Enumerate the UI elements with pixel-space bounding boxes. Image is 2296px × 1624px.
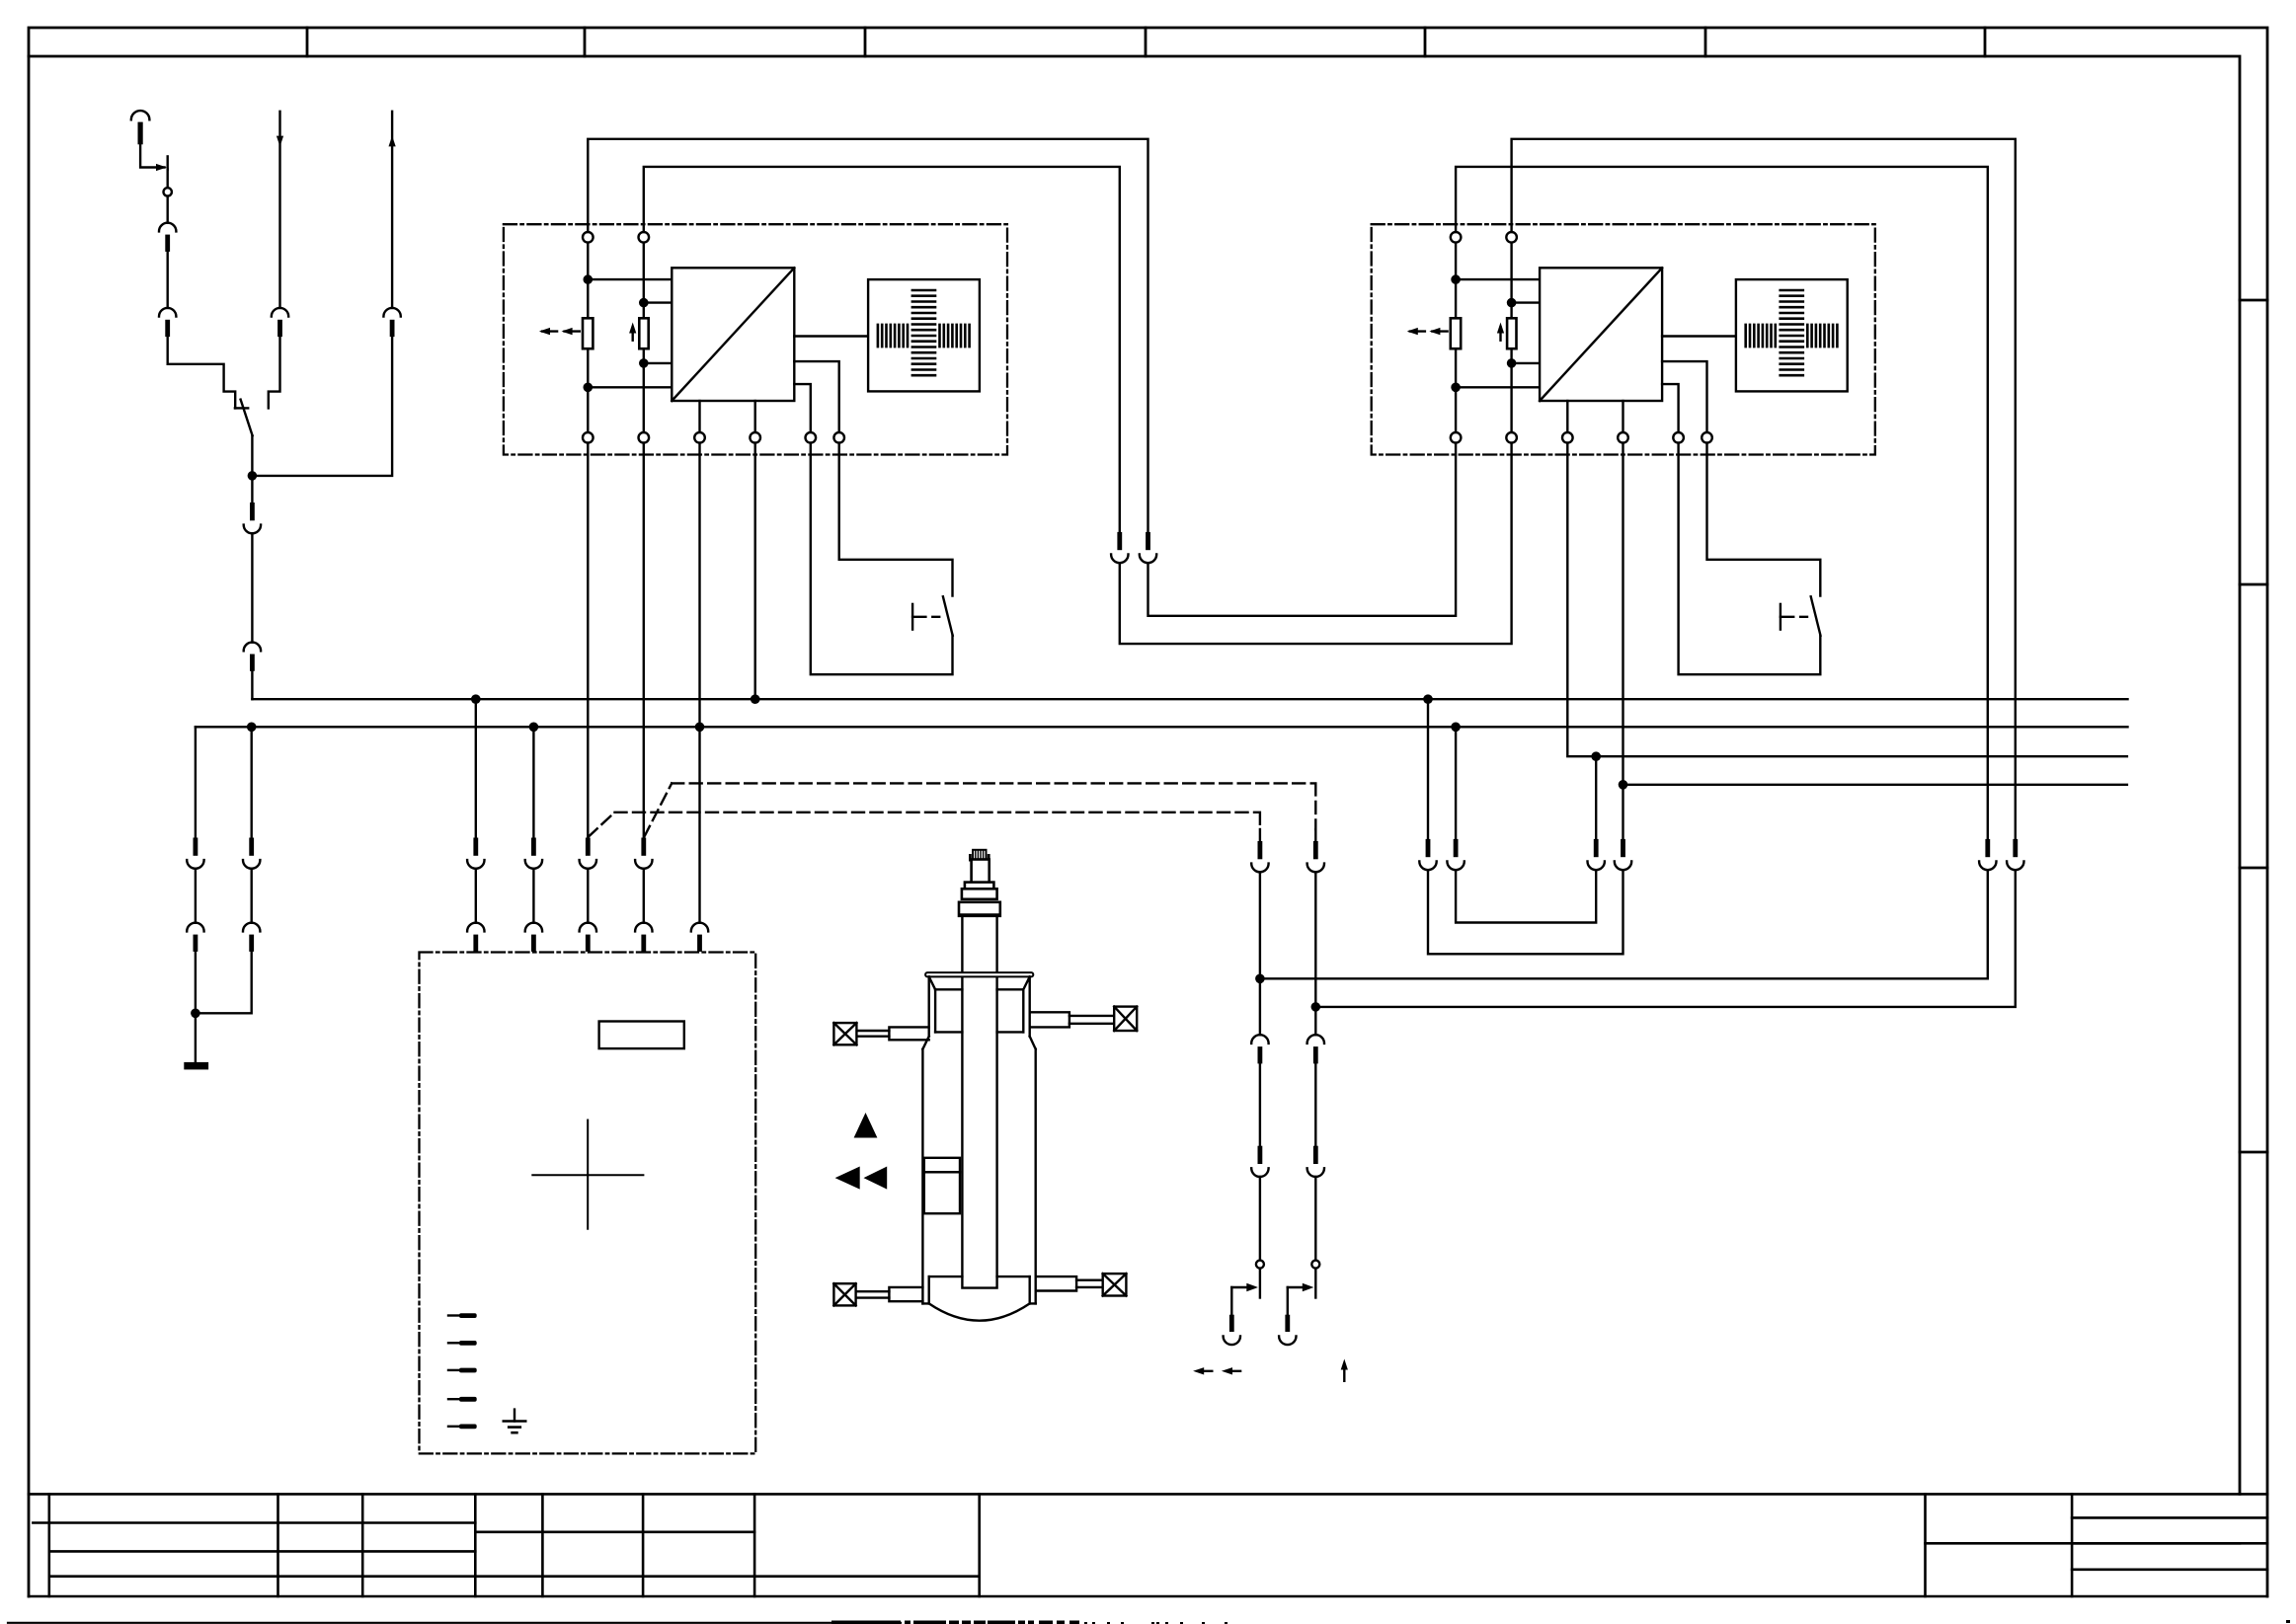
controller input pin 5: [448, 1426, 459, 1428]
connector pair at controller edge: [635, 923, 652, 952]
wire to ground: [195, 952, 197, 1062]
wire B2 top run to far right: [1512, 139, 2016, 839]
wire U loop inner to bus L-: [1456, 870, 1596, 922]
earth junction node: [191, 1009, 200, 1019]
wire W1 to switch fixed contact: [168, 337, 236, 408]
junction node: [1619, 780, 1628, 790]
connector pair: [580, 838, 596, 869]
wire W1 upper run: [140, 144, 164, 167]
wire to bus 1 left end: [251, 671, 253, 699]
nozzle top right pipe: [1069, 1016, 1114, 1024]
plug wire V2: [1287, 1287, 1289, 1315]
junction node to far right: [1311, 1002, 1321, 1012]
TITLE BLOCK: [29, 1494, 2267, 1596]
tap wire A upper: [588, 278, 672, 280]
connector pair on W1: [159, 223, 176, 252]
wire A1 top run to centre: [588, 139, 1148, 532]
terminal circle 1 bottom: [583, 432, 594, 443]
connector pair at controller edge: [525, 923, 542, 952]
wire joining earth branch: [196, 952, 252, 1013]
probe head cap hatched: [973, 850, 986, 860]
junction node A upper: [584, 274, 594, 284]
vessel neck outer walls: [929, 976, 1030, 1036]
arrow link into V2: [1288, 1286, 1303, 1288]
connector pair at controller edge: [580, 923, 596, 952]
terminal circle 3 bottom: [694, 432, 705, 443]
wire node to connector: [1595, 756, 1597, 839]
controller input pin 4: [448, 1398, 459, 1400]
connector pair: [1588, 839, 1605, 870]
wire box1 terminal 3 to bus L- and controller: [698, 443, 700, 923]
wire B1 top run to centre: [644, 167, 1120, 532]
vessel body walls: [922, 1049, 1035, 1304]
wire: [587, 869, 589, 923]
wire: [475, 869, 477, 923]
wire node to connector: [1622, 785, 1623, 839]
terminal circle B top: [639, 232, 650, 243]
wire W2 with down arrow: [278, 112, 280, 308]
wire bus L- node to controller: [532, 727, 534, 837]
resistor RA: [583, 318, 593, 348]
terminal circle 5 bottom: [806, 432, 817, 443]
connector pair far right B: [2007, 839, 2023, 870]
limit switch lower wire: [811, 443, 953, 675]
vessel neck inner top edge: [935, 988, 1023, 990]
controller enclosure dash-dot border: [420, 953, 756, 1454]
nozzle top left stub: [889, 1027, 928, 1040]
controller display window: [599, 1022, 684, 1049]
terminal circle 6 bottom: [833, 432, 844, 443]
dashed link lower: [589, 812, 1260, 837]
terminal circle 2 bottom: [639, 432, 650, 443]
direction arrows outgoing: [1198, 1370, 1212, 1372]
connector pin and socket V2: [1285, 1315, 1290, 1332]
wire: [1259, 872, 1261, 1035]
controller internal earth: [514, 1410, 515, 1422]
wire centre to box2 terminal A2: [1148, 443, 1457, 616]
terminal circle A top: [583, 232, 594, 243]
connector pair: [1251, 1035, 1268, 1063]
valve X-box bottom left: [833, 1283, 855, 1305]
valve X-box top left: [833, 1023, 856, 1044]
connector pin and socket V1: [1229, 1315, 1234, 1332]
display square: [868, 279, 980, 391]
vessel neck bevels: [929, 976, 1030, 989]
converter diagonal: [672, 268, 794, 401]
controller cross mark: [532, 1121, 643, 1229]
probe flange 1: [965, 883, 994, 889]
valve X-box top right: [1114, 1007, 1137, 1031]
wire B inside box: [643, 243, 645, 432]
vessel neck inner walls: [935, 989, 1023, 1032]
plug wire V1: [1230, 1287, 1232, 1315]
connector pair above bus: [244, 643, 261, 671]
connector pair: [1307, 1146, 1324, 1177]
vessel dished bottom: [929, 1303, 1030, 1320]
wire outer loop upper leg: [1427, 699, 1429, 839]
limit switch actuator tick: [911, 604, 913, 630]
connector pair centre left: [1111, 532, 1128, 563]
wire W1: [166, 252, 168, 308]
junction node: [1591, 751, 1601, 761]
junction node to far right: [1255, 974, 1265, 984]
connector pair: [1251, 841, 1268, 872]
tap to terminal 6: [794, 361, 838, 432]
wire: [1314, 1064, 1316, 1146]
wire W3 down to common junction: [252, 337, 392, 476]
arrow link into V1: [1231, 1286, 1246, 1288]
stub above connector: [1259, 829, 1261, 841]
wire A2 top run to far right: [1456, 167, 1988, 839]
connector pair on W3: [383, 308, 400, 337]
connector pair: [187, 923, 203, 952]
wire: [1314, 1177, 1316, 1261]
junction node A lower: [584, 383, 594, 393]
connector pair far right A: [1979, 839, 1996, 870]
wire: [1259, 1177, 1261, 1261]
connector pair: [1615, 839, 1631, 870]
connector pair below junction: [244, 503, 261, 533]
connector pair on W1: [159, 308, 176, 337]
wire bus L+ node to controller: [475, 699, 477, 837]
wire far right to sensor column V2: [1315, 870, 2016, 1007]
connector pair: [243, 838, 260, 869]
bus junction node: [1451, 723, 1461, 733]
wire W1 below circle: [166, 196, 168, 223]
filled triangles left (level marks): [835, 1167, 860, 1190]
nozzle bottom right pipe: [1076, 1280, 1123, 1287]
arrowhead up on W3: [389, 136, 396, 147]
junction common node: [248, 471, 258, 481]
probe flange 2: [962, 889, 997, 899]
tap to terminal 5: [794, 384, 811, 432]
wire box1 terminal 1 to controller: [587, 443, 589, 838]
small circle: [1256, 1261, 1264, 1269]
wire W2 to open throw of switch: [269, 337, 280, 408]
wire W3 with up arrow: [391, 112, 393, 308]
limit switch blade: [943, 596, 953, 635]
small circle on wire W1: [164, 188, 172, 195]
filled triangle up (max level): [854, 1113, 878, 1138]
bus junction node: [751, 694, 760, 704]
wire: [532, 869, 534, 923]
bottom footer line: [8, 1622, 901, 1624]
converter square U: [672, 268, 794, 401]
bus junction node: [695, 723, 705, 733]
level pocket rect lower: [924, 1172, 960, 1213]
wire to sheet edge: [1623, 784, 2127, 786]
nozzle top right stub: [1030, 1012, 1069, 1027]
dashed link upper: [644, 783, 1315, 836]
wire U loop outer to bus L+: [1428, 870, 1623, 954]
connector pair: [525, 838, 542, 869]
connector pair on outer loop: [1419, 839, 1436, 870]
connector pair on W2: [272, 308, 288, 337]
wire: [250, 869, 252, 923]
level pocket rect upper: [924, 1158, 960, 1173]
stub below circle: [1259, 1269, 1261, 1298]
display cross pattern: [878, 290, 970, 375]
tap wire B lower: [644, 362, 673, 364]
connector pair centre right: [1140, 532, 1156, 563]
wire box1 terminal 4 to bus L+: [754, 443, 756, 700]
earth bar: [184, 1062, 208, 1070]
wire from bus L- node down: [250, 727, 252, 837]
bus junction node: [247, 723, 257, 733]
nozzle top left pipe: [856, 1031, 889, 1037]
wire inner loop upper leg: [1455, 727, 1457, 839]
junction node B upper: [639, 298, 649, 308]
connector pair: [1251, 1146, 1268, 1177]
wire centre to box2 terminal B2: [1120, 443, 1512, 644]
connector pair at controller edge: [467, 923, 484, 952]
probe head ears: [970, 855, 989, 860]
bus junction node: [1423, 694, 1433, 704]
wire: [1314, 872, 1316, 1035]
probe coupling: [959, 902, 1000, 916]
limit switch actuator link dashes: [912, 616, 939, 618]
wire: [1259, 1064, 1261, 1146]
wire converter bottom to terminal 3: [698, 401, 700, 432]
probe standpipe: [962, 916, 996, 1288]
connector pair: [467, 838, 484, 869]
connector pair: [635, 838, 652, 869]
resistor RB: [639, 318, 648, 348]
wire box1 terminal 2 to controller: [643, 443, 645, 838]
bus line L+: [252, 698, 2127, 700]
tap wire B upper: [644, 301, 673, 303]
connector pair: [1307, 1035, 1324, 1063]
switch K1 common wire: [251, 435, 253, 503]
direction arrow up: [1343, 1365, 1345, 1381]
switch K1 fixed contact tick: [235, 407, 248, 409]
vessel top flange plate: [925, 972, 1033, 976]
wire from bus L- left end down: [195, 727, 197, 837]
bottom clipped text: [831, 1620, 2290, 1624]
wire to lower connector: [251, 533, 253, 642]
nozzle bottom left pipe: [856, 1291, 890, 1297]
enclosure dash-dot border: [504, 224, 1007, 454]
wire far right to sensor column V1: [1260, 870, 1988, 978]
wire: [643, 869, 645, 923]
wire box2 terminal 4 down: [1622, 443, 1623, 785]
controller input pin 3: [448, 1369, 459, 1371]
connector pair at controller edge: [691, 923, 708, 952]
controller input pin 1: [448, 1314, 459, 1316]
wire terminal 6 to limit switch: [839, 443, 953, 596]
vessel neck inner bottom edge: [935, 1031, 1023, 1033]
nozzle bottom left stub: [889, 1287, 922, 1301]
stub below circle: [1314, 1269, 1316, 1298]
connector pair: [243, 923, 260, 952]
wire converter bottom to terminal 4: [754, 401, 756, 432]
wire box2 terminal 3 down: [1567, 443, 2127, 757]
tap wire A lower: [588, 386, 672, 388]
vessel shoulder bevels: [922, 1037, 1035, 1049]
controller input pin 2: [448, 1342, 459, 1344]
wire: [195, 869, 197, 923]
connector pair: [187, 838, 203, 869]
small circle: [1311, 1261, 1319, 1269]
terminal circle 4 bottom: [750, 432, 760, 443]
vessel bottom steps: [922, 1302, 1035, 1304]
connector pair on inner loop: [1447, 839, 1464, 870]
probe head body: [972, 860, 990, 886]
arrow into tick on wire W1: [156, 164, 167, 171]
tick contact on wire W1: [166, 156, 168, 169]
bus junction node: [529, 723, 539, 733]
nozzle bottom right stub: [1036, 1276, 1076, 1290]
bus junction node: [471, 694, 481, 704]
junction node B lower: [639, 358, 649, 368]
switch K1 blade: [241, 400, 253, 436]
arrowhead down on W2: [277, 136, 283, 147]
wire W1 to circle: [166, 170, 168, 189]
valve X-box bottom right: [1103, 1274, 1127, 1295]
connector pair: [1307, 841, 1324, 872]
wire converter to display: [794, 335, 868, 337]
wire A inside box: [587, 243, 589, 432]
signal arrow up at RB: [632, 328, 634, 341]
vessel bottom ring: [929, 1276, 1030, 1303]
signal arrow pair left: [542, 330, 557, 332]
bus line L-: [196, 726, 2128, 728]
connector socket-pin at top of wire W1: [131, 111, 150, 119]
stub above connector: [1314, 829, 1316, 841]
